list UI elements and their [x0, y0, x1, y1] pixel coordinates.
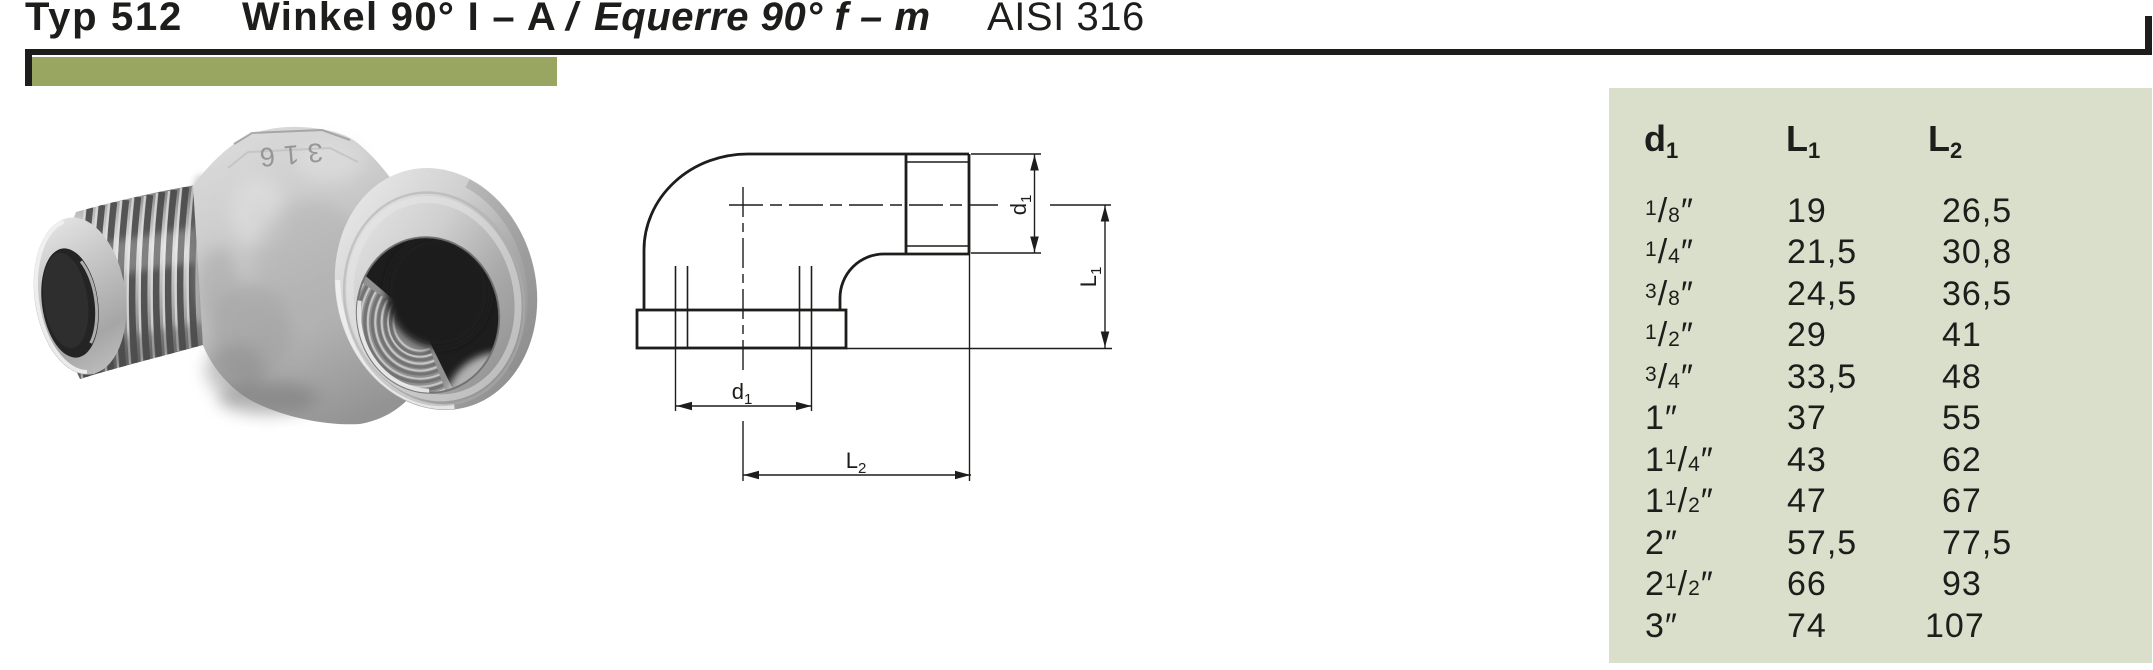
table row 8: i112	[1645, 484, 1714, 523]
dimension L1: dimension line with arrowheads	[1101, 205, 1110, 348]
male end right edge	[968, 154, 971, 254]
table row 3: f38	[1645, 277, 1694, 316]
dimension d1 right: dimension line with arrowheads	[1030, 154, 1039, 253]
elbow outer profile (top line, outer arc, left vertical)	[644, 154, 969, 311]
photo: socket bore with internal thread	[345, 225, 520, 405]
photo: male end opening rim	[24, 211, 136, 380]
photo: male threaded end	[58, 174, 224, 379]
left down-stub of rule	[25, 49, 32, 86]
dimension d1 right: label	[1006, 195, 1035, 216]
dimension L2: right extension line	[969, 254, 971, 481]
horizontal centerline	[729, 204, 998, 206]
photo: elbow body casting	[193, 127, 561, 430]
photo: female socket ring	[311, 148, 561, 431]
dimension L2: dimension line with arrowheads	[743, 471, 971, 479]
dimension d1 bottom: extension lines	[676, 348, 812, 411]
table row 7: i114	[1645, 443, 1714, 482]
table row 10: i212	[1645, 567, 1714, 606]
table row 6: i1	[1645, 401, 1678, 435]
dimension L1: top extension line	[1050, 204, 1111, 206]
male end left shoulder edge	[905, 154, 908, 254]
elbow inner profile (male bottom, inner fillet arc, inner vertical)	[840, 254, 969, 311]
table row 2: f14	[1645, 235, 1694, 274]
table background	[1609, 88, 2152, 663]
male thread inner lines	[906, 162, 969, 246]
table header L1	[1786, 121, 1820, 162]
table header d1	[1644, 121, 1678, 162]
header title "Typ 512"	[25, 0, 183, 37]
flange bottom extension line	[846, 348, 1112, 350]
horizontal rule under title	[25, 49, 2152, 55]
dimension d1 bottom: dimension line with arrowheads	[676, 402, 812, 410]
dimension L2: label	[846, 448, 867, 477]
table row 5: f34	[1645, 360, 1694, 399]
header slash	[566, 0, 577, 37]
dimension d1 right: extension lines	[971, 154, 1041, 253]
photo: male bore opening	[35, 245, 106, 362]
table row 4: f12	[1645, 318, 1694, 357]
right up-stub of rule	[2145, 16, 2152, 55]
header "AISI 316"	[987, 0, 1145, 37]
table row 1: f18	[1645, 194, 1694, 233]
table row 9: i2	[1645, 526, 1678, 560]
svg-text:316: 316	[250, 137, 324, 173]
table header L2	[1928, 121, 1962, 162]
header title "Winkel 90° I – A /"	[242, 0, 557, 37]
vertical centerline	[742, 187, 744, 370]
flange rectangle	[637, 310, 846, 348]
header title "Equerre 90° f – m" italic	[594, 0, 931, 37]
female thread tick right pair	[800, 266, 812, 348]
female thread tick left pair	[676, 266, 688, 348]
dimension L2: left extension line	[742, 421, 744, 481]
olive green bar	[32, 57, 557, 86]
dimension L1: label	[1076, 267, 1105, 288]
dimension d1 bottom: label	[732, 379, 753, 408]
table row 11: i3	[1645, 609, 1678, 643]
